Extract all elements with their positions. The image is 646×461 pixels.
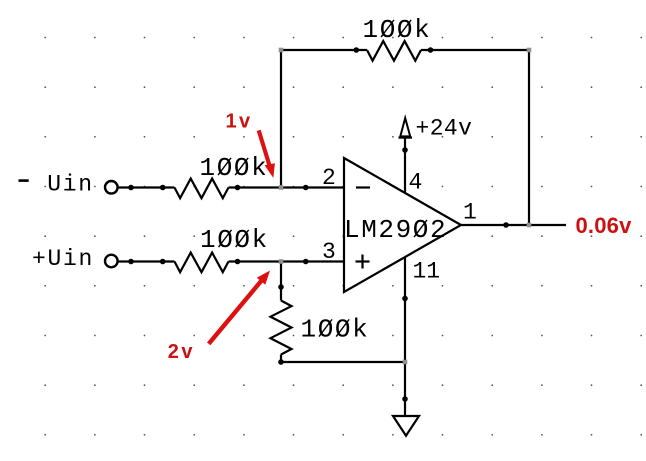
junction dot feedback left — [354, 47, 360, 53]
wire feedback left vertical — [280, 50, 282, 188]
wire ground resistor bottom stub — [280, 355, 282, 363]
junction dot row1 c — [235, 185, 241, 191]
svg-text:0.06v: 0.06v — [576, 213, 633, 238]
svg-text:1: 1 — [463, 199, 477, 225]
connection square node inverting input — [279, 185, 284, 190]
junction dot ground resistor top — [278, 284, 284, 290]
wire op-amp pin 11 to ground — [404, 257, 406, 416]
terminal circle +Uin — [105, 255, 118, 268]
power symbol +24v (up triangle) — [400, 118, 410, 136]
junction dot feedback right — [428, 47, 434, 53]
svg-text:1v: 1v — [226, 111, 253, 133]
wire non-inverting input row left — [119, 260, 175, 262]
svg-text:LM29Ø2: LM29Ø2 — [344, 215, 447, 245]
svg-text:1ØØk: 1ØØk — [301, 315, 370, 345]
wire non-inverting input row right to op-amp — [229, 260, 345, 262]
junction dot output — [503, 222, 509, 228]
junction dot row1 a — [128, 185, 134, 191]
resistor 100k inverting input (zigzag) — [175, 179, 229, 199]
wire inverting input row right to op-amp — [229, 186, 345, 188]
annotation arrow 2v to non-inverting node — [209, 271, 270, 344]
svg-text:+Uin: +Uin — [32, 246, 94, 272]
svg-text:2v: 2v — [168, 341, 195, 363]
svg-text:1ØØk: 1ØØk — [200, 153, 269, 183]
wire feedback top horizontal left segment — [281, 49, 367, 51]
wire output pin 1 — [461, 224, 566, 226]
junction dot row2 c — [235, 259, 241, 265]
wire bottom horizontal to pin 11 net — [281, 361, 405, 363]
junction dot pin 11 stub — [402, 296, 408, 302]
resistor 100k feedback (zigzag) — [367, 41, 421, 61]
junction dot row1 b — [160, 185, 166, 191]
connection square node top-left corner — [279, 48, 284, 53]
svg-text:2: 2 — [322, 165, 336, 191]
junction dot +24v stub — [402, 147, 408, 153]
terminal circle -Uin — [105, 181, 118, 194]
label - Uin — [19, 179, 29, 182]
connection square node non-inverting input — [279, 259, 284, 264]
resistor 100k non-inverting input (zigzag) — [175, 253, 229, 273]
wire inverting input row left — [119, 186, 175, 188]
junction dot row2 b — [160, 259, 166, 265]
svg-text:3: 3 — [322, 239, 336, 265]
connection square node output — [527, 223, 532, 228]
junction dot row1 d (pin 2) — [303, 185, 309, 191]
op-amp U1 LM2902 triangle — [344, 158, 461, 292]
wire feedback right vertical — [528, 50, 530, 225]
wire op-amp pin 4 to +24v — [404, 138, 406, 194]
connection square node bottom wire — [403, 360, 408, 365]
svg-text:+24v: +24v — [416, 116, 473, 142]
ground symbol (down triangle) — [393, 416, 419, 436]
svg-text:Uin: Uin — [47, 172, 94, 198]
svg-text:11: 11 — [413, 259, 441, 285]
resistor 100k to ground (vertical zigzag) — [271, 301, 292, 355]
connection square node top-right corner — [527, 48, 532, 53]
junction dot ground resistor bottom — [278, 359, 284, 365]
wire ground resistor top stub — [280, 262, 282, 301]
svg-text:1ØØk: 1ØØk — [363, 15, 432, 45]
wire feedback top horizontal right segment — [421, 49, 529, 51]
svg-text:4: 4 — [409, 170, 423, 196]
op-amp plus sign (non-inverting input) — [356, 260, 370, 262]
junction dot row2 d (pin 3) — [303, 259, 309, 265]
svg-text:1ØØk: 1ØØk — [200, 225, 269, 255]
junction dot row2 a — [128, 259, 134, 265]
op-amp minus sign (inverting input) — [356, 186, 370, 188]
junction dot ground stub — [402, 396, 408, 402]
annotation arrow 1v to inverting node — [259, 130, 275, 178]
